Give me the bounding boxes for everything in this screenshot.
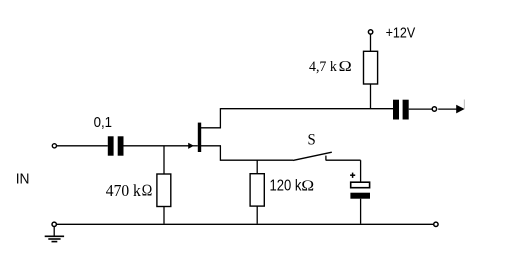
svg-text:+12V: +12V <box>386 25 416 42</box>
svg-text:470 k: 470 k <box>106 181 142 200</box>
svg-text:S: S <box>308 132 316 149</box>
svg-text:Ω: Ω <box>142 181 153 200</box>
svg-text:Ω: Ω <box>338 59 352 75</box>
svg-text:0,1: 0,1 <box>94 114 112 131</box>
svg-text:120 k: 120 k <box>270 177 302 194</box>
svg-text:4,7 k: 4,7 k <box>309 59 337 75</box>
svg-text:IN: IN <box>16 171 30 188</box>
svg-text:Ω: Ω <box>301 177 314 194</box>
